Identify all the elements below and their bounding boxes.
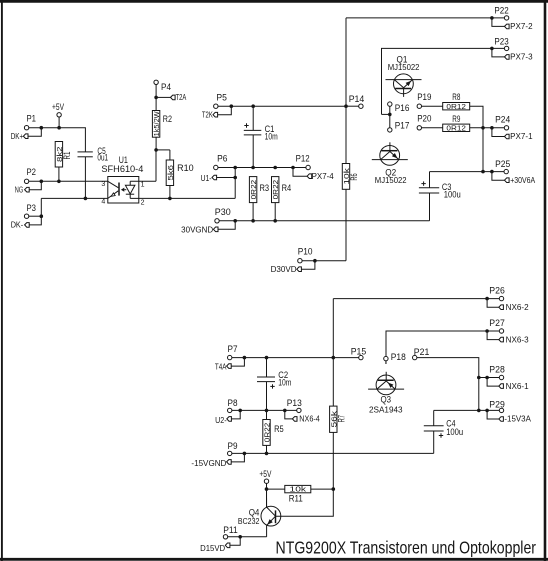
svg-text:NX6-3: NX6-3 xyxy=(506,335,529,344)
svg-text:BC232: BC232 xyxy=(238,517,260,526)
svg-text:P3: P3 xyxy=(27,203,37,213)
svg-text:P20: P20 xyxy=(417,113,431,123)
svg-text:SFH610-4: SFH610-4 xyxy=(101,164,143,174)
svg-text:D30VD: D30VD xyxy=(271,265,297,274)
svg-text:R11: R11 xyxy=(289,494,303,504)
svg-text:P22: P22 xyxy=(494,6,508,16)
svg-text:NTG9200X Transistoren und Opto: NTG9200X Transistoren und Optokoppler xyxy=(276,537,537,557)
svg-text:2: 2 xyxy=(141,199,145,206)
svg-text:1: 1 xyxy=(141,181,145,188)
svg-text:P14: P14 xyxy=(349,94,365,104)
svg-text:P12: P12 xyxy=(296,153,310,163)
svg-text:R8: R8 xyxy=(452,92,460,102)
svg-text:0R12: 0R12 xyxy=(446,125,466,132)
svg-text:P23: P23 xyxy=(494,37,508,47)
svg-text:2SA1943: 2SA1943 xyxy=(369,405,403,414)
svg-text:P28: P28 xyxy=(489,364,505,374)
svg-text:R9: R9 xyxy=(452,114,460,124)
svg-text:+30V6A: +30V6A xyxy=(510,176,536,185)
svg-text:U1-: U1- xyxy=(201,174,212,183)
svg-text:P15: P15 xyxy=(351,347,367,357)
svg-text:P2: P2 xyxy=(27,167,37,177)
svg-text:30VGND: 30VGND xyxy=(181,225,213,234)
svg-text:PX7-2: PX7-2 xyxy=(510,22,532,31)
svg-text:P9: P9 xyxy=(228,441,238,451)
svg-text:5k6: 5k6 xyxy=(168,165,175,181)
svg-text:MJ15022: MJ15022 xyxy=(375,176,407,185)
svg-text:P13: P13 xyxy=(287,398,302,408)
svg-text:PX7-1: PX7-1 xyxy=(510,132,532,141)
svg-text:P18: P18 xyxy=(391,352,406,362)
svg-text:P19: P19 xyxy=(417,92,431,102)
svg-text:D15VD: D15VD xyxy=(200,544,225,553)
svg-text:P27: P27 xyxy=(489,318,505,328)
svg-text:T2A: T2A xyxy=(176,93,187,102)
svg-text:U2-: U2- xyxy=(215,416,227,425)
svg-text:T4A: T4A xyxy=(215,362,227,371)
svg-text:P1: P1 xyxy=(27,113,37,123)
svg-text:P24: P24 xyxy=(495,115,510,125)
svg-text:R7: R7 xyxy=(336,415,346,422)
svg-text:+5V: +5V xyxy=(52,102,64,112)
svg-text:R5: R5 xyxy=(274,424,284,434)
svg-text:P26: P26 xyxy=(489,286,505,296)
svg-text:PX7-3: PX7-3 xyxy=(510,53,532,62)
svg-text:DK+: DK+ xyxy=(11,132,24,141)
svg-text:P29: P29 xyxy=(489,399,505,409)
svg-text:R3: R3 xyxy=(260,183,270,193)
svg-text:R4: R4 xyxy=(282,183,292,193)
svg-text:100u: 100u xyxy=(444,190,461,200)
svg-text:PX7-4: PX7-4 xyxy=(312,172,335,181)
svg-text:0R22: 0R22 xyxy=(251,180,258,200)
svg-text:0R22: 0R22 xyxy=(273,180,280,200)
svg-text:T2K: T2K xyxy=(202,110,213,119)
svg-text:NG: NG xyxy=(15,186,23,195)
svg-text:R10: R10 xyxy=(177,163,194,173)
svg-text:P8: P8 xyxy=(228,398,238,408)
svg-text:P16: P16 xyxy=(395,103,410,113)
svg-text:R6: R6 xyxy=(349,173,359,180)
svg-text:R1: R1 xyxy=(62,152,72,160)
svg-text:-15VGND: -15VGND xyxy=(191,459,226,468)
svg-text:P5: P5 xyxy=(216,92,227,102)
svg-text:100u: 100u xyxy=(446,427,463,437)
svg-text:P21: P21 xyxy=(414,347,430,357)
svg-text:MJ15022: MJ15022 xyxy=(388,63,420,72)
svg-text:-15V3A: -15V3A xyxy=(504,415,531,424)
svg-text:P4: P4 xyxy=(161,82,171,92)
svg-text:1k5/2W: 1k5/2W xyxy=(154,111,161,136)
svg-text:R2: R2 xyxy=(163,114,172,124)
svg-text:3: 3 xyxy=(101,181,105,188)
svg-text:NX6-4: NX6-4 xyxy=(299,415,320,424)
svg-text:NX6-1: NX6-1 xyxy=(506,382,529,391)
svg-text:P30: P30 xyxy=(215,207,231,217)
svg-text:P10: P10 xyxy=(298,246,313,256)
svg-text:0u1: 0u1 xyxy=(97,153,108,163)
svg-text:Q4: Q4 xyxy=(249,508,260,518)
svg-text:4: 4 xyxy=(101,199,105,206)
svg-text:10m: 10m xyxy=(265,132,278,142)
svg-text:P25: P25 xyxy=(495,159,510,169)
svg-text:P11: P11 xyxy=(223,525,238,535)
svg-text:P17: P17 xyxy=(395,120,410,130)
svg-text:10m: 10m xyxy=(278,377,291,387)
svg-text:0R12: 0R12 xyxy=(446,104,466,111)
svg-text:0R22: 0R22 xyxy=(265,423,272,443)
svg-text:NX6-2: NX6-2 xyxy=(506,303,529,312)
svg-text:P6: P6 xyxy=(217,154,227,164)
svg-text:Q3: Q3 xyxy=(381,395,392,405)
svg-text:DK-: DK- xyxy=(11,220,24,229)
svg-text:+5V: +5V xyxy=(259,469,271,479)
svg-text:P7: P7 xyxy=(228,344,238,354)
